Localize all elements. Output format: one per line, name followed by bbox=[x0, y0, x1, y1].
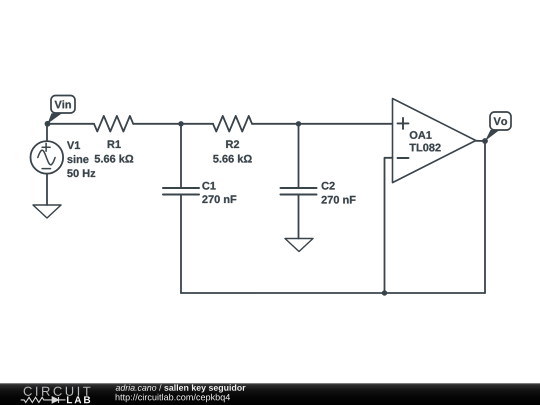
node flag Vin box bbox=[51, 96, 75, 114]
source V1 plus sign bbox=[42, 143, 50, 151]
node B junction dot bbox=[296, 121, 301, 126]
label C2 name bbox=[322, 182, 335, 190]
wire R1 to node A bbox=[133, 123, 181, 125]
node flag Vo pointer bbox=[485, 130, 500, 141]
op-amp OA1 triangle bbox=[393, 99, 476, 183]
node flag Vin text bbox=[55, 100, 71, 108]
label R1 name bbox=[108, 140, 121, 148]
label C1 value 270 nF bbox=[202, 195, 236, 203]
ground symbol at V1 bbox=[33, 205, 61, 218]
wire node A to R2 bbox=[181, 123, 213, 125]
resistor R1 body bbox=[94, 116, 133, 132]
source V1 circle bbox=[31, 141, 64, 174]
logo circuit glyph wire and resistor bbox=[21, 397, 66, 403]
logo CIRCUIT text bbox=[24, 387, 91, 396]
source V1 sine symbol bbox=[38, 150, 55, 165]
label C2 value 270 nF bbox=[321, 196, 355, 204]
label R2 name bbox=[226, 140, 239, 148]
label R2 value 5.66 kOhm bbox=[213, 155, 252, 163]
op-amp minus input marker bbox=[398, 157, 409, 159]
label V1 name bbox=[67, 141, 80, 149]
label V1 frequency 50 Hz bbox=[67, 169, 95, 177]
logo diode symbol bbox=[52, 397, 58, 403]
wire feedback from minus input to bottom rail bbox=[385, 158, 393, 293]
wire bottom rail bbox=[181, 292, 485, 294]
footer url bbox=[116, 394, 230, 402]
capacitor C1 plates bbox=[163, 188, 199, 195]
node Vo junction dot bbox=[482, 138, 488, 144]
wire node A down to C1 bbox=[180, 124, 182, 188]
wire R2 to node B bbox=[252, 123, 299, 125]
resistor R2 body bbox=[213, 116, 252, 132]
wire V1 to ground bbox=[46, 174, 48, 205]
wire output down to bottom rail bbox=[484, 141, 486, 293]
op-amp plus input marker bbox=[398, 118, 409, 129]
bottom rail junction dot bbox=[382, 290, 387, 295]
label V1 type sine bbox=[67, 155, 88, 163]
ground symbol at C2 bbox=[285, 239, 313, 252]
node flag Vo text bbox=[494, 117, 508, 125]
footer credit author bbox=[116, 384, 157, 390]
label C1 name bbox=[202, 182, 215, 190]
wire Vin node down to V1 bbox=[46, 124, 48, 141]
capacitor C2 plates bbox=[281, 188, 317, 195]
wire Vin node to R1 bbox=[48, 123, 95, 125]
node Vin junction dot bbox=[45, 121, 51, 127]
node flag Vo box bbox=[490, 112, 511, 130]
footer credit title bbox=[164, 384, 245, 392]
wire node B to op-amp + input bbox=[299, 123, 393, 125]
footer bar bbox=[0, 383, 540, 405]
wire op-amp output bbox=[476, 140, 485, 142]
source V1 minus sign bbox=[42, 168, 50, 170]
wire node B down to C2 bbox=[298, 124, 300, 188]
label R1 value 5.66 kOhm bbox=[95, 155, 134, 163]
node A junction dot bbox=[178, 121, 183, 126]
label OA1 part TL082 bbox=[409, 144, 440, 152]
node flag Vin pointer bbox=[48, 113, 63, 124]
wire C1 down to bottom rail bbox=[180, 195, 182, 294]
label OA1 name bbox=[410, 131, 432, 139]
footer credit separator bbox=[159, 384, 161, 390]
wire C2 to ground bbox=[298, 195, 300, 239]
logo LAB text bbox=[67, 396, 90, 403]
